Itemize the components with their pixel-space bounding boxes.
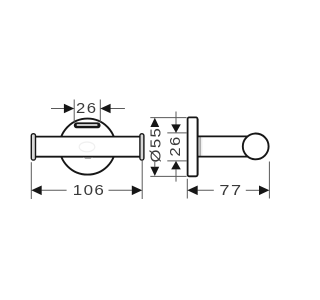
dim O55 arrow bottom	[150, 167, 159, 176]
arm top line	[198, 135, 247, 137]
dim O55 arrow top	[150, 118, 159, 127]
dim 26s ext bottom	[167, 160, 186, 162]
dim 26 arrow right	[100, 104, 110, 114]
dim 26 leader left	[51, 108, 64, 110]
wall plate circle	[60, 119, 116, 175]
dim 26s line top	[175, 112, 177, 125]
arm bottom line	[198, 156, 247, 158]
dim 106 ext line left	[30, 162, 32, 199]
dim 26s arrow top	[171, 124, 181, 132]
dim 77 arrow right	[259, 186, 269, 196]
dim 26 arrow left	[64, 104, 74, 114]
dim 106 ext line right	[141, 161, 143, 199]
dim 26 ext line left	[73, 100, 75, 122]
svg-text:26: 26	[76, 101, 97, 117]
arm body white	[199, 137, 247, 155]
bar bottom line	[35, 156, 140, 158]
dim O55 line bottom seg	[154, 162, 156, 167]
dim 77 line right	[246, 189, 259, 191]
dim 106 line left	[42, 189, 67, 191]
svg-text:Ø55: Ø55	[148, 127, 164, 163]
bottom notch	[83, 157, 93, 159]
hub ellipse (faint)	[79, 142, 95, 152]
mounting slot	[74, 122, 101, 128]
dim 106 arrow right	[132, 186, 142, 196]
dim 77 ext right	[268, 162, 270, 199]
wall plate (side)	[188, 117, 198, 176]
plate right edge thickening	[197, 119, 199, 175]
ball	[243, 134, 269, 160]
svg-text:26: 26	[168, 135, 184, 156]
dim 26 leader right	[110, 108, 125, 110]
dim 26s ext top	[167, 132, 186, 134]
dim 77 ext left	[186, 179, 188, 199]
dim 77 arrow left	[187, 186, 197, 196]
dim 26 ext line right	[99, 100, 101, 122]
dim 26s arrow bottom	[171, 161, 181, 170]
right end cap	[140, 134, 144, 160]
collar shade	[201, 137, 203, 156]
dim O55 ext top	[150, 117, 186, 119]
dim 106 arrow left	[31, 186, 41, 196]
bar body (white fill over circle)	[35, 137, 142, 156]
dim 77 line left	[198, 189, 214, 191]
collar line	[199, 137, 201, 157]
dim 26s line bottom	[175, 169, 177, 181]
bar top line	[35, 136, 140, 138]
dim 106 line right	[109, 189, 132, 191]
svg-text:77: 77	[219, 182, 242, 198]
svg-text:106: 106	[73, 183, 106, 199]
left end cap	[31, 134, 35, 160]
dim O55 ext bottom	[150, 175, 186, 177]
